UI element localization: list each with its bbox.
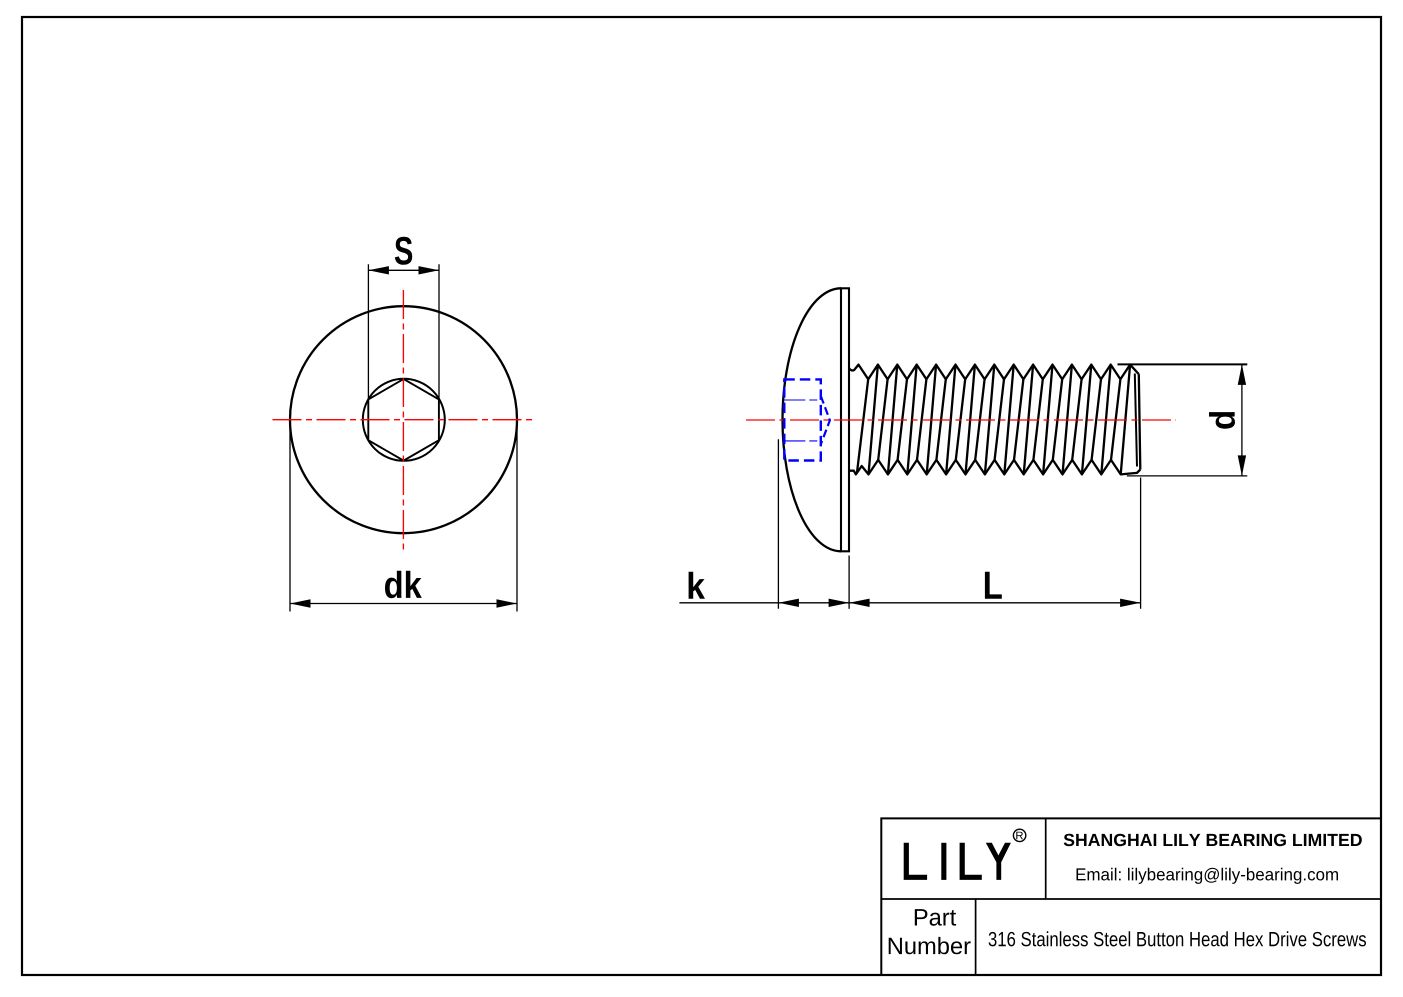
dimension L extension line (thread end) xyxy=(1140,478,1142,609)
dimension d dimension line xyxy=(1241,364,1243,476)
title block logo cell divider xyxy=(1045,818,1047,899)
part number cell label line 1 xyxy=(915,909,956,926)
part description xyxy=(989,931,1366,946)
front view: screw head outer circle xyxy=(290,306,517,533)
dimension S label xyxy=(395,237,412,265)
company name xyxy=(1064,834,1362,847)
dimension S left arrow xyxy=(368,266,389,274)
side view: hidden socket drill point (blue dashed chevron) xyxy=(821,396,830,444)
side view: thread flank lines (root helix) xyxy=(857,379,1120,472)
dimension S extension line right xyxy=(438,264,440,399)
side view: button head dome profile xyxy=(783,288,841,551)
LILY logo xyxy=(904,843,1011,880)
side view: thread end chamfer line xyxy=(1135,374,1137,467)
dimension S right arrow xyxy=(419,266,440,274)
title block part number cell divider xyxy=(975,899,977,975)
dimension dk extension line left xyxy=(289,421,291,612)
dimension dk extension line right xyxy=(516,421,518,612)
side view: thread top crest outline xyxy=(849,365,1139,380)
dimension L left arrow xyxy=(849,599,870,607)
dimension d top arrow xyxy=(1238,364,1246,385)
side view: hidden hex socket outline (blue dashed) xyxy=(784,379,821,460)
dimension k and L dimension line xyxy=(679,602,1140,604)
title block outline xyxy=(881,818,1380,974)
side view: thread bottom crest outline xyxy=(849,460,1140,475)
dimension L label xyxy=(985,572,1002,599)
front view: horizontal red centerline xyxy=(273,419,536,421)
dimension dk left arrow xyxy=(290,599,311,607)
dimension d label (rotated) xyxy=(1209,412,1235,429)
dimension d extension line top xyxy=(1118,363,1248,365)
side view: thread end face xyxy=(1139,374,1141,469)
dimension S dimension line xyxy=(368,269,439,271)
dimension k extension line (head left) xyxy=(777,439,779,609)
part number cell label line 2 xyxy=(889,937,971,954)
dimension dk dimension line xyxy=(290,603,517,605)
front view: hex socket hexagon xyxy=(368,379,439,461)
dimension k/L shared extension line (head face) xyxy=(848,556,850,609)
dimension k left arrow xyxy=(778,599,799,607)
dimension dk right arrow xyxy=(497,599,518,607)
dimension dk label xyxy=(385,571,422,599)
side view: hidden hex socket inner flat lines (blue) xyxy=(784,399,821,401)
dimension L right arrow xyxy=(1120,599,1141,607)
side view: red centerline xyxy=(746,419,1176,421)
side view: thread flank lines (crest helix) xyxy=(869,365,1131,475)
dimension S extension line left xyxy=(367,264,369,399)
title block row divider xyxy=(881,898,1381,900)
front view: hex socket circle xyxy=(363,379,445,461)
dimension k right arrow xyxy=(829,599,850,607)
dimension d extension line bottom xyxy=(1127,475,1248,477)
dimension d bottom arrow xyxy=(1238,455,1246,476)
LILY logo registered mark xyxy=(1013,829,1025,841)
side view: head flat face (washer face) xyxy=(841,288,849,551)
front view: vertical red centerline xyxy=(402,290,404,553)
company email xyxy=(1077,868,1338,884)
dimension k label xyxy=(689,572,705,599)
